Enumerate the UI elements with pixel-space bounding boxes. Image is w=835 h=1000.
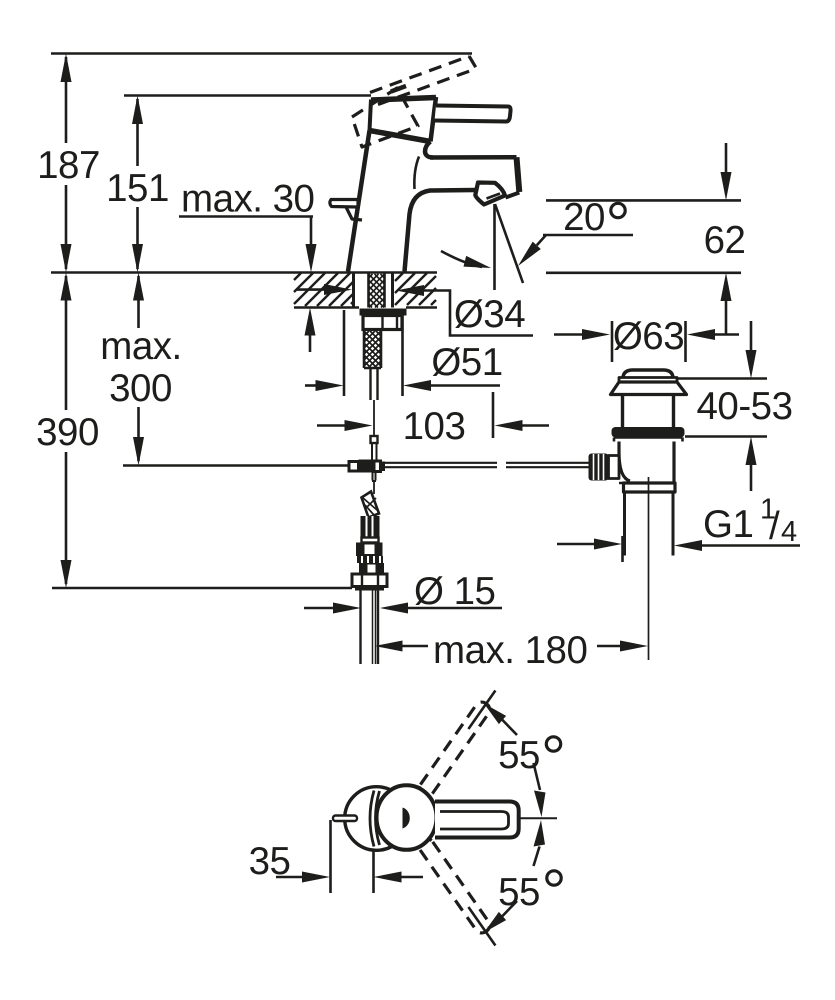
lever top view [435,802,519,838]
35 right arrow line [401,876,423,879]
tailpipe [625,492,674,556]
35 ext tick right [372,849,375,893]
svg-text:max. 30: max. 30 [181,178,314,221]
dim ref line 151 [124,94,371,97]
svg-text:390: 390 [36,411,99,454]
svg-text:187: 187 [37,144,100,187]
upper block [356,543,383,557]
O51 ext tick left [343,310,346,396]
counter underside line [294,306,359,308]
ref line 40-53 top [674,377,767,380]
G1 dim right segment [701,544,800,547]
103 ext tick [492,392,495,438]
20deg slant ray [495,204,523,283]
plug disc [619,378,677,383]
svg-text:max. 180: max. 180 [433,629,587,672]
counter surface line right [546,271,741,274]
spout end [517,157,520,192]
body right edge to spout [425,142,433,158]
dashed lever up position [416,699,492,799]
35 left arrow line [276,876,302,879]
smooth rod [371,368,378,400]
mounting nut [363,316,402,330]
pipes [361,591,379,665]
pin [333,816,357,822]
threaded shank through counter [369,274,385,308]
55 upper ray [468,691,495,730]
svg-text:300: 300 [109,367,172,410]
svg-text:151: 151 [106,167,169,210]
dashed handle skirt raised [352,88,418,147]
faucet head [371,98,436,101]
svg-text:103: 103 [403,405,466,448]
hatch left block [294,273,353,306]
55 center lower arrowhead [534,820,546,847]
max180 right arrow line [597,645,620,648]
O15 left arrow line [304,607,333,610]
103 right arrow line [522,424,549,427]
frayed braided tip [362,492,380,518]
dim line 187 vertical [65,57,68,269]
20deg leader horizontal [543,234,633,237]
T-fitting on pop-up rod [349,462,359,472]
ref line 62 top (spout tip level) [546,199,741,202]
O15 right arrow line [408,607,502,610]
O63 ext tick left [611,321,614,362]
dim 62 bottom shaft [725,300,728,334]
braided hose body [361,516,380,538]
SHANK AND MOUNTING [349,273,589,482]
55 center upper arrowhead [534,791,546,818]
dashed lever raised [352,56,477,147]
svg-text:55: 55 [498,734,540,777]
103 left arrow line [317,424,345,427]
G1 dim left segment [557,543,595,546]
20deg leader arrowhead [518,242,541,266]
dim 62 top shaft [725,143,728,173]
COUNTERTOP [294,273,437,308]
counter surface line left [51,271,437,274]
20deg leader slant [537,235,546,245]
main dome circle [377,785,437,850]
dim ref line top (187) [51,52,472,55]
aerator [475,183,505,205]
FAUCET SIDE VIEW [330,56,519,272]
svg-text:Ø51: Ø51 [431,341,502,384]
dim line O63 left [554,333,583,336]
max180 left arrow line [402,645,428,648]
svg-text:Ø 15: Ø 15 [414,570,495,613]
rod connector [371,436,378,443]
O51 right arrow line [430,384,500,387]
G1 ext tick [621,536,624,562]
collar [362,538,379,543]
tee body [614,438,683,442]
svg-text:max.: max. [100,325,181,368]
side outlet connector [609,456,620,479]
svg-text:Ø63: Ø63 [613,315,684,358]
hex nut [352,574,387,587]
keyhole mark [403,808,410,829]
svg-text:35: 35 [249,840,291,883]
mounting hole walls [352,273,355,308]
lower block [359,563,384,574]
horizontal pop-up rod [385,463,497,467]
dim line 390 vertical [65,276,68,584]
pop-up knob on body left [330,200,358,208]
bottom band [355,587,384,591]
striped band [357,556,383,563]
neck [623,395,674,428]
55 center upper tail [534,763,541,790]
body left edge [348,131,370,272]
centerline right of lever [508,817,557,819]
thin pull rod line [373,400,375,436]
spout top [430,155,517,160]
20deg vertical ray [493,204,496,290]
svg-text:20: 20 [563,196,605,239]
spout underside left + fillet down to base [405,190,477,272]
dim line max300 vertical [137,276,140,461]
dim line 151 vertical [136,99,139,269]
O51 left arrow line [305,384,316,387]
washer under counter [360,309,407,316]
max30 lower arrow shaft [309,334,312,352]
max30 underline and leader [179,217,313,247]
O34 left arrow line [297,288,325,291]
TOP VIEW [333,699,519,935]
DRAIN / POP-UP WASTE [589,370,687,660]
O34 right leader [423,291,533,336]
svg-text:40-53: 40-53 [697,385,793,428]
knurled knob [589,454,609,481]
svg-text:Ø34: Ø34 [454,293,525,336]
threaded rod below nut [364,331,381,368]
55 lower tip arrowhead [484,912,506,933]
arrowheads [61,54,72,83]
ref line 40-53 bottom [685,435,767,438]
O63 ext tick right [684,321,687,362]
O51 ext tick right [401,315,404,396]
svg-text:/: / [769,505,780,548]
55 lower ray [468,907,495,946]
hatch right block [395,273,436,305]
inner curve at spout junction [414,157,419,190]
ref line max300 bottom [123,464,350,467]
55 lower leader [502,901,517,917]
drain centerline [648,477,650,660]
body circle [345,787,409,851]
svg-text:G1: G1 [703,503,753,546]
35 ext tick left [329,820,332,893]
55 upper leader [502,720,517,736]
dashed lever down position [416,836,492,936]
svg-text:55: 55 [498,871,540,914]
plug dome [623,370,673,378]
coupling [624,483,676,492]
20deg arc [441,251,482,267]
dim line O63 right [714,333,739,336]
flange [611,382,687,395]
spout underside right [506,193,520,198]
bottom ref line 390 [52,587,352,590]
svg-text:62: 62 [704,219,746,262]
rubber gasket [612,427,685,438]
dim 40-53 bottom shaft [750,464,753,491]
55 upper tip arrowhead [484,704,506,725]
SUPPLY HOSE CONNECTOR [352,482,387,664]
seam arcs [370,791,374,847]
lever handle [435,106,511,122]
dim 40-53 top shaft [750,321,753,351]
55 center lower tail [534,847,540,867]
20deg arc arrowhead [464,256,492,268]
svg-text:4: 4 [781,516,797,548]
